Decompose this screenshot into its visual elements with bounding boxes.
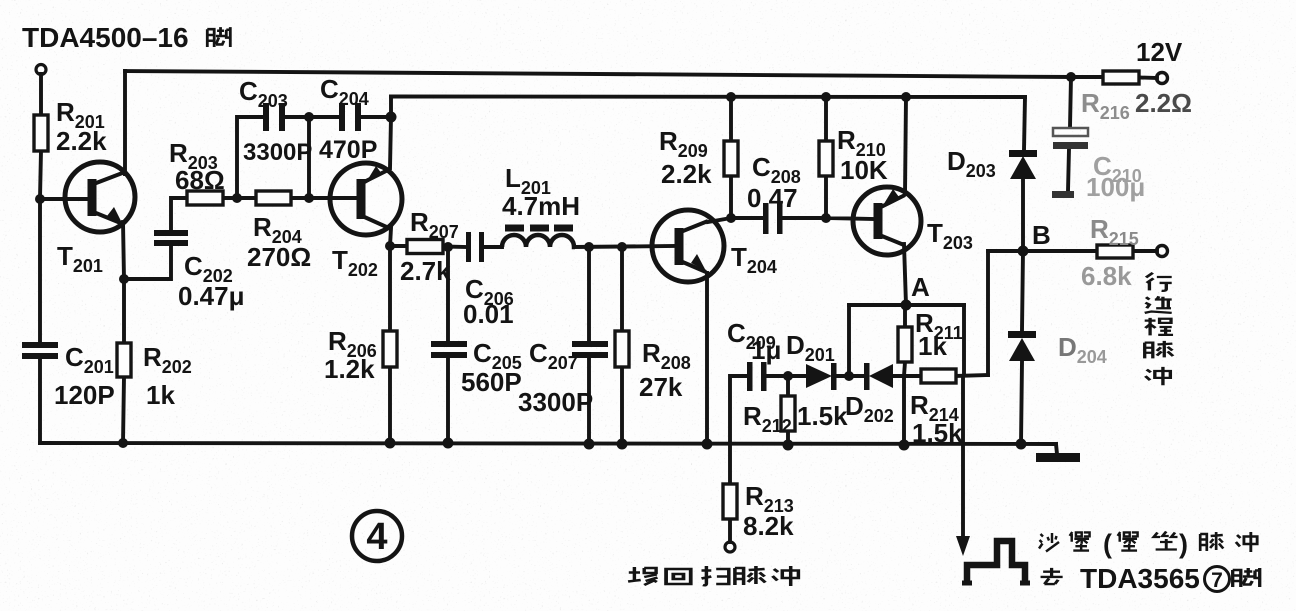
svg-text:100μ: 100μ: [1086, 172, 1145, 202]
label sandcastle pulse text: [1039, 529, 1257, 559]
wire C207 column: [587, 247, 591, 444]
transistor T201: [65, 162, 135, 232]
wire R210 column: [824, 97, 828, 218]
junction node R202 at rail: [118, 438, 128, 448]
wire R206 column: [388, 246, 392, 443]
junction node top rail right: [1066, 72, 1076, 82]
wire B row: [988, 249, 1097, 253]
wire C205 column: [446, 247, 450, 443]
transistor T202: [330, 163, 402, 235]
inductor L201 core dashes: [505, 225, 573, 232]
wire left input column: [40, 74, 41, 443]
svg-text:3300P: 3300P: [518, 387, 593, 417]
wire T202 emitter up: [390, 117, 391, 168]
wire R204 right to T202 base: [291, 196, 357, 200]
wire ground stub: [1056, 444, 1057, 454]
svg-text:1k: 1k: [918, 331, 947, 361]
wire R203 right to junction: [223, 196, 256, 200]
resistor R212: [781, 396, 795, 431]
wire T201 emitter column: [123, 222, 124, 443]
svg-text:1μ: 1μ: [751, 335, 781, 365]
wire C203-C204 node column: [285, 117, 340, 198]
svg-text:0.47: 0.47: [747, 183, 798, 213]
svg-text:270Ω: 270Ω: [247, 242, 311, 272]
wire sandcastle output: [961, 376, 965, 541]
svg-text:TDA4500–16: TDA4500–16: [22, 22, 189, 53]
capacitor C209: [747, 362, 753, 391]
svg-text:1k: 1k: [146, 380, 175, 410]
resistor R207: [407, 240, 443, 254]
resistor R203: [187, 191, 223, 205]
capacitor C210 electrolytic: [1053, 128, 1088, 136]
svg-text:2.2k: 2.2k: [56, 126, 107, 156]
wire R211 column: [904, 305, 905, 445]
terminal R215 output: [1157, 246, 1168, 257]
arrowhead T203 emitter (PNP into base): [882, 189, 899, 207]
wire second rail: [391, 95, 1025, 99]
resistor R214: [921, 369, 956, 383]
wire collector node to R207: [390, 244, 407, 248]
capacitor C205: [431, 341, 467, 347]
svg-text:2.2Ω: 2.2Ω: [1135, 88, 1192, 118]
junction node T201 base: [35, 194, 45, 204]
resistor R204: [256, 191, 291, 205]
junction node R208 at rail: [617, 439, 628, 450]
transistor T203: [853, 187, 921, 255]
wire T204 emitter down: [705, 273, 709, 444]
wire C202 link: [124, 198, 187, 279]
resistor R201: [34, 115, 48, 151]
svg-text:120P: 120P: [54, 380, 115, 410]
svg-text:0.47μ: 0.47μ: [178, 281, 245, 311]
wire C209 input column: [730, 376, 747, 484]
svg-text:4: 4: [366, 516, 387, 558]
junction node T201 emitter / C202: [119, 274, 129, 284]
svg-text:8.2k: 8.2k: [743, 511, 794, 541]
resistor R213: [723, 484, 737, 519]
wire D203 top: [1024, 97, 1025, 150]
terminal input TDA4500: [36, 65, 46, 75]
svg-text:TDA3565: TDA3565: [1080, 563, 1200, 594]
junction node C209-R212-D201: [783, 371, 793, 381]
svg-text:1.5k: 1.5k: [797, 401, 848, 431]
wire R216 leads: [1071, 77, 1157, 78]
capacitor C207: [572, 341, 608, 347]
wire C204 right node: [359, 97, 391, 118]
label TDA4500-16 jiao char: [207, 27, 230, 47]
junction node L201 right: [584, 242, 594, 252]
wire C210 leads: [1068, 77, 1071, 191]
svg-text:560P: 560P: [461, 367, 522, 397]
capacitor C202: [154, 230, 188, 236]
svg-text:0.01: 0.01: [463, 299, 514, 329]
wire B column down: [986, 251, 990, 375]
wire T203 collector to node A: [904, 244, 906, 305]
svg-text:6.8k: 6.8k: [1081, 261, 1132, 291]
diode D202: [869, 364, 893, 388]
capacitor C201: [22, 342, 58, 348]
wire T201 base: [41, 197, 91, 201]
svg-text:27k: 27k: [639, 372, 683, 402]
junction node R208 top: [617, 242, 627, 252]
wire top supply rail: [125, 71, 1071, 77]
junction node R212 at rail: [783, 440, 794, 451]
transistor T204: [652, 210, 724, 282]
junction node C205 at rail: [443, 438, 454, 449]
label field flyback pulse (chang hui sao mai chong): [628, 566, 798, 586]
wire D201 to box left: [836, 374, 865, 378]
junction node B: [1018, 246, 1029, 257]
wire C206 to L201: [484, 245, 502, 249]
arrowhead T204 emitter: [691, 254, 706, 271]
svg-text:12V: 12V: [1136, 37, 1183, 67]
wire L201 right node to T204 base: [575, 246, 674, 247]
wire R208 column: [620, 247, 624, 444]
svg-text:2.7k: 2.7k: [400, 256, 451, 286]
junction node C207 at rail: [584, 439, 595, 450]
junction node A: [901, 300, 912, 311]
svg-text:(: (: [1103, 529, 1112, 559]
junction node T202 collector: [385, 241, 395, 251]
resistor R206: [383, 331, 397, 367]
wire bottom ground rail: [40, 443, 1056, 444]
junction node D204 at rail: [1016, 439, 1027, 450]
arrowhead sandcastle output: [956, 536, 970, 556]
junction node T204 collector: [726, 213, 736, 223]
junction node R204 right: [304, 193, 314, 203]
resistor R209: [724, 141, 738, 176]
resistor R202: [117, 343, 131, 377]
capacitor C208: [763, 203, 769, 234]
junction node T203 emitter at rail2: [901, 92, 911, 102]
wire D203 anode to B: [1021, 179, 1025, 251]
junction node R210 at rail2: [821, 92, 831, 102]
svg-text:3300P: 3300P: [243, 139, 312, 166]
junction node R206 at rail: [385, 438, 396, 449]
svg-text:A: A: [911, 272, 930, 302]
svg-text:): ): [1179, 529, 1188, 559]
diode D201: [806, 364, 832, 388]
label to TDA3565 pin 7: [1041, 563, 1260, 594]
resistor R211: [898, 327, 912, 362]
capacitor C204: [339, 103, 345, 131]
diode D203: [1010, 156, 1036, 179]
svg-text:7: 7: [1211, 569, 1223, 592]
wire D204 links: [1021, 251, 1023, 444]
inductor L201: [502, 235, 575, 247]
junction node C208-R210: [821, 213, 831, 223]
svg-text:2.2k: 2.2k: [661, 159, 712, 189]
terminal 12V: [1157, 73, 1168, 84]
wire node A box top: [849, 303, 964, 307]
wire T204 collector up: [708, 176, 731, 222]
svg-text:470P: 470P: [319, 136, 377, 164]
ground symbol: [1036, 453, 1080, 462]
terminal R213 bottom: [725, 542, 735, 552]
wire T201 collector to top rail: [123, 71, 127, 174]
diode D204: [1009, 338, 1035, 361]
wire R215 right: [1133, 249, 1157, 253]
wire R213 bottom lead: [728, 519, 732, 542]
resistor R216: [1103, 71, 1139, 84]
label horizontal retrace pulse (vertical text): [1145, 273, 1173, 385]
wire C209 right node: [766, 374, 806, 378]
wire R209 top: [729, 97, 733, 141]
junction node R211 bottom at rail: [899, 440, 910, 451]
svg-text:68Ω: 68Ω: [175, 165, 225, 195]
resistor R210: [819, 141, 833, 176]
junction node R209 at rail2: [726, 92, 736, 102]
wire C208 row: [731, 218, 874, 219]
wire box right side: [962, 305, 966, 375]
junction node T204 emitter at rail: [702, 439, 713, 450]
circled 4: [352, 511, 402, 561]
junction node R207-C205: [443, 242, 453, 252]
wire C203 left branch: [237, 117, 264, 198]
junction node R203-R204: [232, 193, 242, 203]
junction node C203-C204: [304, 112, 314, 122]
wire R214 right: [956, 375, 988, 376]
wire R212 stubs: [786, 376, 790, 445]
junction node C204 right: [386, 112, 397, 123]
wire box left side: [847, 305, 851, 376]
junction node box left bottom: [844, 371, 854, 381]
wire T203 emitter up: [905, 97, 906, 194]
sandcastle pulse symbol: [967, 541, 1025, 584]
svg-text:1.2k: 1.2k: [324, 354, 375, 384]
wire D202 to R211 node: [893, 374, 921, 378]
wire R207 to C206: [443, 245, 466, 249]
arrowhead T201 emitter: [107, 207, 123, 225]
svg-text:4.7mH: 4.7mH: [502, 191, 580, 221]
wire T202 collector down: [390, 228, 391, 246]
arrowhead T202 emitter (PNP into base): [365, 166, 382, 184]
svg-text:10K: 10K: [840, 155, 888, 185]
capacitor C206: [466, 232, 471, 262]
capacitor C203: [263, 103, 269, 131]
svg-text:B: B: [1032, 220, 1051, 250]
resistor R215: [1097, 245, 1133, 258]
resistor R208: [615, 331, 629, 367]
svg-text:1.5k: 1.5k: [912, 418, 963, 448]
